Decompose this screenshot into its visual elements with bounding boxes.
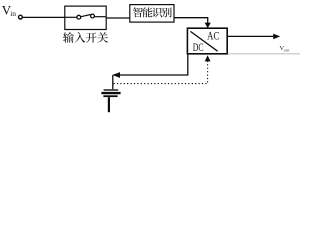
svg-text:in: in xyxy=(10,9,16,18)
arrowhead toward battery xyxy=(112,72,120,78)
node Vout label xyxy=(279,45,290,53)
block: input switch box xyxy=(65,6,106,29)
block: smart identification box xyxy=(130,5,174,23)
label: 智能识别 xyxy=(133,7,172,17)
svg-text:DC: DC xyxy=(193,40,204,54)
node Vin label xyxy=(2,2,16,18)
wire Vin to switch box xyxy=(22,16,65,18)
arrowhead output xyxy=(273,34,280,40)
battery BT1 bottom stub xyxy=(108,97,110,112)
svg-text:out: out xyxy=(284,48,291,53)
wire smart-id box to AC/DC converter xyxy=(174,18,208,24)
arrowhead into converter top xyxy=(205,23,211,29)
battery BT1 plate 3 xyxy=(103,95,117,97)
converter U1: AC/DC box xyxy=(187,28,227,54)
switch S1 left contact xyxy=(77,15,81,19)
sense wire battery to converter (dotted) xyxy=(114,61,208,84)
battery BT1 plate 1 xyxy=(104,89,119,91)
faint rule line right of converter xyxy=(228,53,300,55)
output wire xyxy=(227,35,274,37)
terminal (input) xyxy=(19,15,23,19)
feedback wire converter to battery (solid) xyxy=(120,54,188,75)
switch S1 right contact xyxy=(91,14,95,18)
wire switch box to smart-id box xyxy=(106,17,130,19)
switch S1 right stub xyxy=(95,16,107,18)
switch S1 left stub xyxy=(65,16,77,18)
svg-text:AC: AC xyxy=(207,28,219,42)
arrowhead into converter bottom xyxy=(205,55,211,61)
wire corner down to battery xyxy=(112,75,114,89)
switch S1 blade xyxy=(81,15,91,17)
battery BT1 plate 2 xyxy=(101,92,120,94)
label: 输入开关 xyxy=(63,32,108,43)
converter diagonal xyxy=(190,31,217,51)
